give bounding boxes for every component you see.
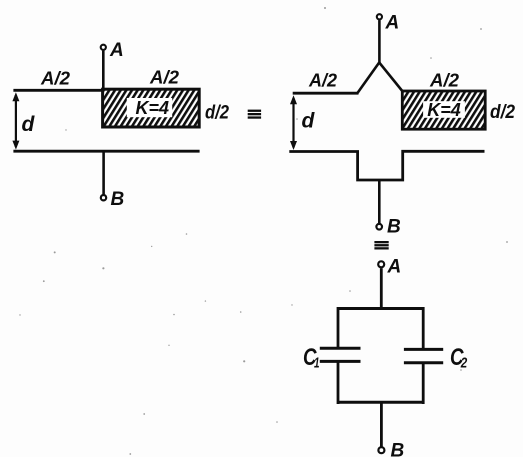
svg-text:A: A (387, 256, 402, 277)
svg-text:A/2: A/2 (429, 71, 459, 91)
top rail (fig3) (337, 307, 424, 310)
dielectric slab (fig1) (103, 89, 200, 127)
fork left diagonal (fig2) (357, 63, 379, 94)
stepped bottom plate (fig2) (289, 151, 484, 180)
equivalence symbol 2 (374, 241, 388, 250)
left branch upper wire (fig3) (337, 307, 340, 348)
svg-text:B: B (111, 189, 125, 210)
terminal A (fig2) (377, 14, 382, 19)
wire B (fig1) (102, 151, 105, 194)
fork right diagonal (fig2) (379, 63, 403, 93)
svg-text:B: B (391, 441, 405, 457)
svg-text:2: 2 (460, 355, 468, 372)
bottom rail (fig3) (337, 401, 424, 404)
terminal A (fig1) (101, 45, 106, 50)
svg-text:d: d (22, 113, 36, 136)
label C2 (fig3) (450, 344, 468, 371)
equivalence symbol 1 (248, 110, 261, 119)
terminal B (fig2) (376, 224, 382, 230)
capacitor C1 (fig3) (320, 348, 361, 361)
wire B (fig3) (380, 402, 383, 446)
svg-text:A/2: A/2 (40, 68, 70, 88)
wire A to top rail (fig3) (380, 268, 383, 308)
label K=4 (fig1) (127, 98, 172, 118)
wire B (fig2) (378, 180, 381, 224)
label K=4 (fig2) (423, 100, 465, 120)
label C1 (fig3) (303, 344, 320, 371)
svg-text:1: 1 (314, 355, 320, 372)
svg-text:d/2: d/2 (205, 102, 229, 123)
terminal A (fig3) (378, 261, 384, 267)
right branch lower wire (fig3) (422, 363, 425, 404)
dimension arrow d (fig2) (290, 95, 297, 150)
left plate (fig2) (293, 92, 359, 95)
top plate (fig1) (13, 89, 199, 92)
dimension arrow d (fig1) (12, 92, 19, 149)
terminal B (fig1) (101, 195, 106, 200)
svg-text:A/2: A/2 (308, 71, 337, 91)
svg-text:d: d (302, 110, 316, 133)
svg-text:d/2: d/2 (490, 102, 515, 123)
wire A to fork (fig2) (378, 20, 381, 63)
svg-text:K=4: K=4 (427, 100, 461, 120)
dielectric slab (fig2) (402, 91, 485, 129)
right branch upper wire (fig3) (422, 307, 425, 350)
bottom plate (fig1) (13, 150, 199, 153)
svg-text:B: B (387, 216, 401, 237)
svg-text:A/2: A/2 (149, 68, 179, 88)
svg-text:A: A (385, 12, 400, 33)
svg-text:K=4: K=4 (136, 98, 170, 118)
svg-text:A: A (109, 40, 124, 61)
wire A (fig1) (102, 51, 105, 92)
capacitor C2 (fig3) (404, 349, 443, 362)
terminal B (fig3) (378, 447, 384, 453)
left branch lower wire (fig3) (337, 361, 340, 404)
